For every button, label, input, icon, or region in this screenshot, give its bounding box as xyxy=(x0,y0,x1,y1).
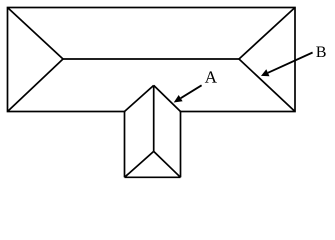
dormer ridge xyxy=(153,85,155,151)
arrow A xyxy=(181,85,202,98)
label A xyxy=(205,71,217,82)
dormer hip right xyxy=(154,151,181,177)
label B xyxy=(316,47,325,58)
arrow B xyxy=(268,53,313,73)
hip top-right xyxy=(239,8,295,60)
ridge line xyxy=(63,58,239,60)
hip bottom-right xyxy=(239,59,295,112)
dormer left wall xyxy=(124,112,126,178)
dormer hip left xyxy=(125,151,154,177)
valley right xyxy=(154,85,181,111)
mask bottom edge gap for dormer xyxy=(125,110,179,114)
hip bottom-left xyxy=(8,59,64,112)
dormer right wall xyxy=(180,112,182,178)
dormer bottom edge xyxy=(125,176,181,178)
valley left xyxy=(125,85,154,111)
hip top-left xyxy=(8,8,64,60)
main roof outline rectangle xyxy=(8,8,296,112)
